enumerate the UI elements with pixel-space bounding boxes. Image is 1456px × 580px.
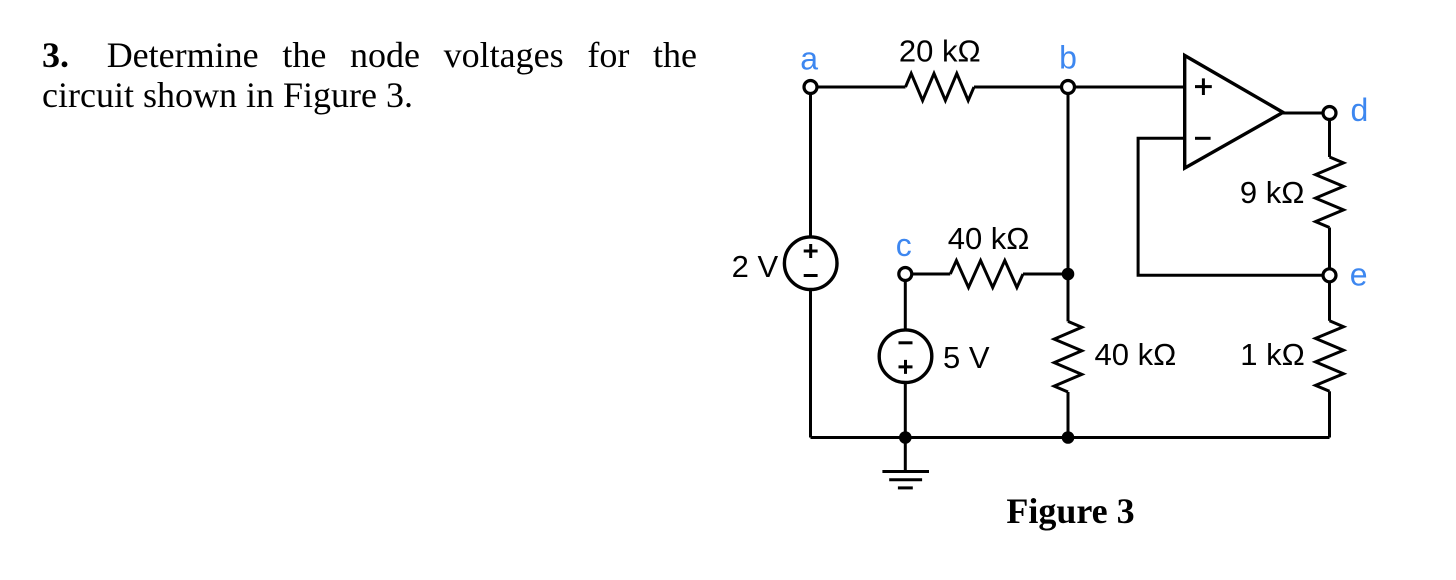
wire 2V source bottom to ground rail (809, 290, 812, 438)
wire node b down through junction to 40k vertical resistor (1067, 87, 1070, 321)
wire 5V source bottom to rail (904, 382, 907, 438)
junction dot at 40k/node b column (1062, 268, 1075, 281)
resistor 20k zigzag (906, 74, 975, 101)
junction dot at 5V ground rail (899, 431, 912, 444)
voltage source 5V circle (879, 330, 932, 383)
svg-text:a: a (800, 41, 818, 77)
op-amp plus input marking (1195, 78, 1212, 95)
ground symbol bar 2 (889, 478, 922, 481)
svg-text:b: b (1059, 40, 1077, 76)
resistor 40k horizontal zigzag (950, 261, 1023, 288)
svg-text:Figure 3: Figure 3 (1006, 491, 1134, 531)
wire 1k resistor bottom to rail corner (1328, 391, 1331, 437)
wire 40k horizontal resistor to junction node (1023, 273, 1068, 276)
2V source minus marking (804, 274, 818, 277)
node d terminal circle (1323, 107, 1336, 120)
ground symbol stem (904, 438, 907, 472)
resistor 1k zigzag (1316, 321, 1344, 392)
5V source minus marking (899, 341, 913, 344)
svg-text:40 kΩ: 40 kΩ (948, 221, 1030, 256)
wire node b to op-amp noninverting input (1068, 86, 1185, 89)
op-amp minus input marking (1195, 137, 1211, 140)
resistor 40k vertical zigzag (1054, 321, 1082, 392)
junction dot at 40k vertical rail (1062, 431, 1075, 444)
op-amp U1 triangle (1185, 56, 1283, 169)
svg-text:e: e (1350, 257, 1368, 293)
node a terminal circle (804, 81, 817, 94)
node e terminal circle (1323, 269, 1336, 282)
wire node a to 20k resistor (811, 86, 906, 89)
svg-text:2 V: 2 V (732, 249, 779, 284)
svg-text:40 kΩ: 40 kΩ (1095, 337, 1177, 372)
voltage source 2V circle (784, 237, 837, 290)
wire node c to 40k horizontal resistor (905, 273, 950, 276)
node c terminal circle (899, 268, 912, 281)
node b terminal circle (1062, 81, 1075, 94)
wire node e down to 1k resistor (1328, 275, 1331, 321)
5V source plus marking (899, 360, 913, 374)
problem statement text (42, 35, 697, 115)
wire node c down to 5V source (904, 274, 907, 331)
wire op-amp inverting input feedback (1138, 138, 1329, 275)
svg-text:c: c (896, 227, 912, 263)
wire 40k vertical resistor bottom to rail (1067, 392, 1070, 438)
wire node a down to 2V source (809, 87, 812, 237)
resistor 9k zigzag (1316, 157, 1344, 228)
wire 20k resistor to node b (974, 86, 1068, 89)
svg-text:9 kΩ: 9 kΩ (1240, 175, 1305, 210)
svg-text:1 kΩ: 1 kΩ (1240, 337, 1305, 372)
svg-text:5 V: 5 V (943, 340, 990, 375)
wire op-amp output to node d (1283, 112, 1330, 115)
wire 9k resistor to node e (1328, 228, 1331, 276)
ground symbol bar 1 (882, 470, 929, 473)
svg-text:d: d (1351, 92, 1369, 128)
svg-text:20 kΩ: 20 kΩ (899, 34, 981, 69)
ground symbol bar 3 (898, 486, 913, 489)
wire node d down to 9k resistor (1328, 113, 1331, 157)
2V source plus marking (804, 244, 818, 258)
bottom ground rail wire (811, 436, 1330, 439)
